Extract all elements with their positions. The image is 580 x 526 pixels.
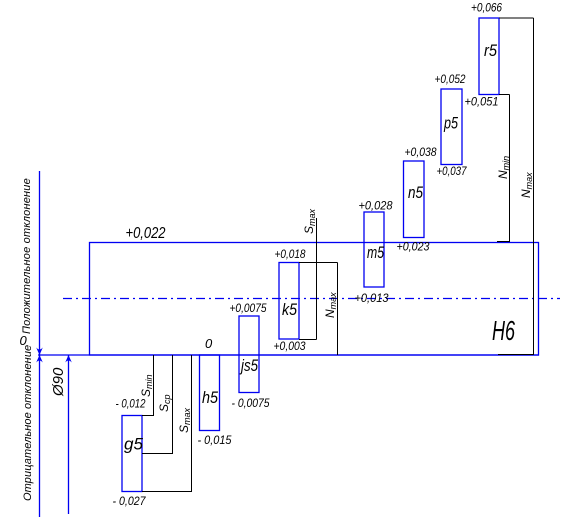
+0,018 label — [275, 247, 306, 261]
g5 tolerance box — [122, 416, 142, 492]
zero line — [38, 354, 539, 356]
k5 label — [282, 300, 297, 319]
svg-text:Smin: Smin — [139, 374, 154, 397]
centre dash-dot line of H6 zone — [63, 298, 560, 300]
+0,038 label — [405, 145, 437, 159]
second vertical leader line — [68, 355, 70, 514]
svg-text:+0,022: +0,022 — [126, 225, 166, 242]
m5 tolerance box — [364, 212, 384, 287]
h5 label — [202, 388, 218, 407]
Nmax dimension line (H6/k5) — [299, 263, 338, 356]
H6 label — [492, 315, 515, 346]
p5 tolerance box — [441, 89, 462, 165]
r5 tolerance box — [479, 18, 499, 95]
svg-text:k5: k5 — [282, 300, 297, 319]
svg-text:+0,023: +0,023 — [397, 240, 430, 254]
+0,028 label — [359, 199, 393, 213]
Scp dimension line (H6/g5 mean clearance) — [142, 355, 173, 454]
Smin dimension line (H6/g5) — [142, 355, 154, 416]
-0,0075 label — [232, 396, 270, 410]
+0,037 label — [437, 164, 468, 178]
svg-text:Nmax: Nmax — [519, 172, 534, 198]
m5 label — [367, 243, 384, 262]
Smax (k5) label — [302, 208, 317, 234]
axis 0 label — [20, 333, 28, 348]
svg-text:Положительное отклонение: Положительное отклонение — [21, 178, 33, 334]
svg-text:H6: H6 — [492, 315, 515, 346]
svg-text:+0,0075: +0,0075 — [230, 301, 267, 315]
+0,051 label — [465, 95, 499, 109]
svg-text:Nmax: Nmax — [323, 292, 338, 318]
g5 label — [124, 435, 144, 454]
Smin label — [139, 374, 154, 397]
svg-text:- 0,015: - 0,015 — [198, 433, 232, 447]
n5 tolerance box — [404, 161, 425, 238]
up arrowhead on second leader at zero line — [65, 355, 72, 363]
svg-text:+0,028: +0,028 — [359, 199, 393, 213]
svg-text:p5: p5 — [443, 114, 458, 133]
Nmax (r5) label — [519, 172, 534, 198]
Nmin (r5) label — [496, 156, 511, 179]
svg-text:+0,066: +0,066 — [471, 1, 502, 15]
-0,015 label — [198, 433, 232, 447]
svg-text:Nmin: Nmin — [496, 156, 511, 179]
svg-text:0: 0 — [205, 336, 213, 351]
p5 label — [443, 114, 458, 133]
svg-text:Smax: Smax — [302, 208, 317, 234]
svg-text:js5: js5 — [239, 356, 258, 375]
svg-text:+0,037: +0,037 — [437, 164, 468, 178]
nominal size label (rotated diameter 90) — [50, 367, 67, 397]
-0,027 label — [113, 494, 147, 508]
Smax dimension line (H6/k5) — [299, 218, 317, 340]
axis double arrowhead at zero line — [36, 348, 43, 363]
svg-text:+0,003: +0,003 — [274, 339, 306, 353]
svg-text:Отрицательное отклонение: Отрицательное отклонение — [22, 345, 34, 501]
h5 tolerance box — [200, 355, 220, 431]
svg-text:Scp: Scp — [157, 394, 172, 412]
svg-text:n5: n5 — [408, 183, 423, 202]
svg-text:- 0,012: - 0,012 — [116, 397, 146, 411]
-0,012 label — [116, 397, 146, 411]
Nmin dimension line (H6/r5) — [497, 95, 510, 243]
0 label above h5 — [205, 336, 213, 351]
k5 tolerance box — [279, 263, 299, 340]
svg-text:- 0,0075: - 0,0075 — [232, 396, 270, 410]
svg-text:+0,052: +0,052 — [435, 72, 466, 86]
Smax label — [177, 407, 192, 433]
+0,052 label — [435, 72, 466, 86]
svg-text:h5: h5 — [202, 388, 218, 407]
+0,0075 label — [230, 301, 267, 315]
Scp label — [157, 394, 172, 412]
svg-text:Smax: Smax — [177, 407, 192, 433]
svg-text:Ø90: Ø90 — [50, 367, 67, 397]
svg-text:+0,038: +0,038 — [405, 145, 437, 159]
svg-text:m5: m5 — [367, 243, 384, 262]
svg-text:+0,051: +0,051 — [465, 95, 499, 109]
svg-text:r5: r5 — [484, 41, 497, 60]
js5 tolerance box — [239, 316, 259, 393]
svg-text:- 0,027: - 0,027 — [113, 494, 147, 508]
svg-text:+0,013: +0,013 — [355, 291, 389, 305]
Smax dimension line (H6/g5) — [142, 355, 192, 492]
+0,013 label — [355, 291, 389, 305]
js5 label — [239, 356, 258, 375]
+0,022 label — [126, 225, 166, 242]
+0,066 label — [471, 1, 502, 15]
+0,023 label — [397, 240, 430, 254]
+0,003 label — [274, 339, 306, 353]
positive deviation axis caption — [21, 178, 33, 334]
axis vertical line (deviation axis) — [39, 171, 41, 517]
H6 tolerance zone box — [90, 243, 539, 356]
negative deviation axis caption — [22, 345, 34, 501]
svg-text:g5: g5 — [124, 435, 144, 454]
Nmax (k5) label — [323, 292, 338, 318]
Nmax dimension line (H6/r5) — [498, 18, 534, 355]
r5 label — [484, 41, 497, 60]
svg-text:+0,018: +0,018 — [275, 247, 306, 261]
n5 label — [408, 183, 423, 202]
